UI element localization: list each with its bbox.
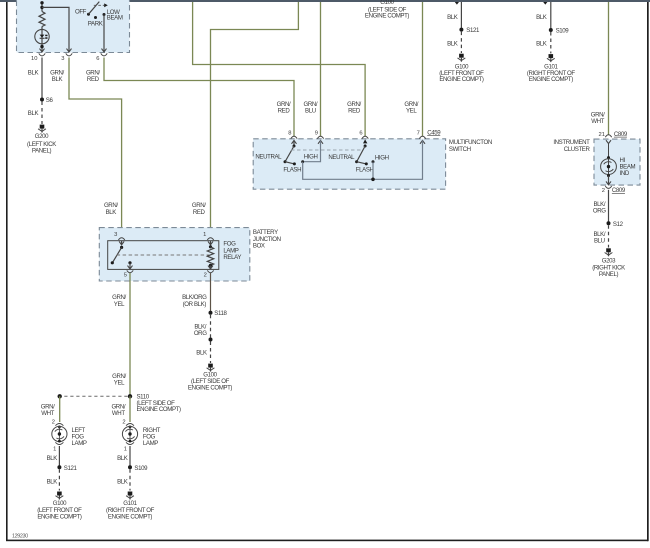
wire GRN/BLK from pin 3 to BJB pin 3: [50, 58, 121, 237]
connector pin 2 C809: [602, 181, 626, 194]
right fog lamp: [122, 420, 160, 453]
svg-text:OFF: OFF: [75, 8, 87, 15]
headlamp switch box (cut at top): [17, 0, 130, 53]
wire BLK from left fog lamp to S121: [47, 446, 60, 467]
svg-text:1: 1: [53, 446, 56, 452]
svg-text:S6: S6: [46, 97, 54, 104]
splice S109 (bottom): [128, 465, 148, 472]
svg-text:G100: G100: [380, 0, 394, 6]
svg-text:C809: C809: [614, 131, 628, 138]
svg-text:8: 8: [288, 130, 291, 136]
svg-text:PANEL): PANEL): [32, 148, 52, 155]
svg-text:3: 3: [114, 232, 117, 238]
wire: headlamp switch internal feed at x=42: [40, 1, 43, 11]
svg-text:1: 1: [203, 232, 206, 238]
svg-text:ENGINE COMPT): ENGINE COMPT): [365, 13, 410, 20]
svg-text:ENGINE COMPT): ENGINE COMPT): [137, 406, 182, 413]
relay switch: [111, 246, 123, 265]
svg-text:YEL: YEL: [114, 380, 125, 387]
svg-text:RED: RED: [348, 107, 361, 114]
splice S118: [209, 310, 228, 317]
relay actuation dashed link: [117, 254, 210, 256]
svg-text:BLK: BLK: [47, 455, 58, 462]
splice S121 (top): [459, 27, 480, 34]
svg-text:2: 2: [122, 420, 125, 426]
splice S6: [40, 97, 53, 104]
svg-text:BLU: BLU: [305, 107, 316, 114]
connector pin 21 C809: [599, 131, 628, 144]
ground G100 (left front of engine compt) top: [439, 54, 484, 83]
wire: branch from feed to pin 3: [42, 7, 69, 48]
svg-text:C809: C809: [612, 187, 626, 194]
top header bar: [0, 0, 650, 2]
svg-text:RED: RED: [193, 209, 206, 216]
connector pin 3 at battery junction box: [114, 232, 125, 245]
wire BLK/ORG from cluster pin 2 to S12: [593, 190, 609, 224]
switch mechanical link dashed: [291, 149, 361, 151]
splice (unlabeled) below S118: [209, 338, 213, 342]
svg-text:129230: 129230: [12, 534, 28, 540]
connector pin 1 at battery junction box: [203, 232, 214, 245]
svg-text:BLK: BLK: [117, 479, 128, 486]
relay coil: [207, 245, 213, 273]
svg-text:BLK: BLK: [28, 110, 39, 117]
wire BLK top right to S109: [536, 2, 551, 30]
svg-text:S109: S109: [134, 465, 148, 472]
connector pin 7 C459: [417, 129, 442, 145]
page border left: [6, 2, 8, 541]
headlamp switch contact PARK: [94, 16, 97, 19]
svg-text:GRN/: GRN/: [104, 202, 118, 209]
svg-text:G101: G101: [123, 500, 137, 507]
svg-text:BLK: BLK: [117, 455, 128, 462]
connector pin 2 at battery junction box: [204, 272, 207, 278]
wire BLK/ORG dashed below S118: [194, 315, 211, 338]
wire BLK/BLU dashed to G203: [593, 225, 608, 247]
svg-text:S121: S121: [64, 465, 78, 472]
wire GRN/RED from top to multifunction switch pin 6: [193, 2, 366, 136]
svg-text:BLK: BLK: [52, 76, 63, 83]
wire GRN/YEL from top to multifunction switch pin 7: [404, 2, 422, 136]
svg-text:BLK: BLK: [106, 209, 117, 216]
svg-text:2: 2: [204, 272, 207, 278]
ground G101 (right front of engine compt) top: [527, 54, 576, 83]
wire GRN/RED from pin 6 to multifunction switch pin 8: [86, 58, 294, 137]
illumination lamp in headlamp switch: [35, 27, 49, 49]
wire GRN/YEL from BJB pin 5 to S110: [112, 273, 130, 396]
svg-text:9: 9: [315, 130, 318, 136]
svg-text:PARK: PARK: [88, 21, 103, 28]
svg-text:BLK: BLK: [447, 41, 458, 48]
wire GRN/BLU from top to multifunction switch pin 9: [304, 2, 321, 136]
wire BLK dashed to G101 (top): [536, 32, 551, 53]
page border bottom: [6, 540, 648, 542]
svg-text:C459: C459: [427, 129, 441, 136]
ground G200: [27, 125, 56, 155]
multifunction switch 1 blade: [284, 144, 296, 163]
connector pin 9 C459: [315, 130, 324, 145]
connector pin 5 at battery junction box: [124, 272, 127, 278]
svg-text:ORG: ORG: [593, 208, 606, 215]
resistor (dimmer rheostat) in headlamp switch: [39, 12, 45, 27]
svg-text:YEL: YEL: [406, 107, 417, 114]
wire BLK dashed to G100 mid: [196, 342, 210, 364]
connector pin 6 C459: [359, 130, 368, 143]
battery junction box: [99, 228, 280, 281]
svg-text:BLK: BLK: [536, 41, 547, 48]
wire BLK dashed to G101 (bottom right): [117, 469, 130, 490]
svg-text:21: 21: [599, 132, 605, 138]
svg-text:7: 7: [417, 130, 420, 136]
svg-text:2: 2: [602, 188, 605, 194]
headlamp switch contact LOW BEAM + wire to pin 6: [103, 13, 106, 48]
svg-text:ENGINE COMPT): ENGINE COMPT): [529, 76, 574, 83]
splice S109 (top): [549, 27, 570, 34]
ground G100 (left front of engine compt) bottom: [37, 492, 82, 521]
wire BLK dashed from S6 to G200: [28, 102, 42, 125]
svg-text:S118: S118: [214, 310, 227, 317]
svg-text:2: 2: [52, 420, 55, 426]
svg-text:S12: S12: [613, 221, 624, 228]
svg-text:G200: G200: [35, 133, 49, 140]
pin 6 stub top: [543, 2, 547, 5]
svg-text:GRN/: GRN/: [192, 202, 206, 209]
connector pin 3 at headlamp switch: [61, 48, 72, 62]
svg-text:LAMP: LAMP: [72, 440, 87, 447]
svg-text:(OR BLK): (OR BLK): [183, 301, 207, 308]
svg-text:ENGINE COMPT): ENGINE COMPT): [439, 76, 484, 83]
wire BLK/ORG from BJB pin 2 to S118: [182, 273, 210, 313]
multifunction switch 2 contacts: [328, 154, 388, 174]
svg-text:RED: RED: [87, 76, 100, 83]
svg-text:BEAM: BEAM: [107, 15, 123, 22]
svg-text:ENGINE COMPT): ENGINE COMPT): [108, 514, 153, 521]
svg-text:1: 1: [124, 446, 127, 452]
svg-text:S109: S109: [556, 27, 570, 34]
pin 4 stub top: [455, 2, 459, 5]
connector pin 10 at headlamp switch: [31, 48, 45, 62]
svg-text:PANEL): PANEL): [599, 271, 619, 278]
svg-text:NEUTRAL: NEUTRAL: [255, 154, 282, 161]
ground G100 (left side of engine compt): [188, 364, 233, 392]
ground G203: [592, 248, 625, 278]
hi beam indicator lamp: [601, 143, 636, 181]
svg-text:S121: S121: [466, 27, 480, 34]
svg-text:YEL: YEL: [114, 301, 125, 308]
svg-text:BLU: BLU: [594, 238, 605, 245]
switch travel dashed arrow: [94, 3, 108, 7]
svg-text:HIGH: HIGH: [375, 154, 389, 161]
wire BLK from pin 10 to S6: [28, 58, 42, 100]
svg-text:BOX: BOX: [253, 243, 265, 250]
svg-text:ENGINE COMPT): ENGINE COMPT): [37, 514, 82, 521]
wire BLK dashed to G100 (bottom left): [47, 469, 60, 490]
instrument cluster box: [553, 139, 640, 185]
multifunction switch 2 blade: [355, 144, 367, 163]
svg-text:BLK: BLK: [447, 14, 458, 21]
svg-text:SWITCH: SWITCH: [449, 146, 471, 153]
multifunction switch 1 contacts: [255, 154, 317, 174]
headlamp switch position labels: [75, 8, 123, 27]
svg-text:WHT: WHT: [112, 410, 125, 417]
splice S110: [128, 393, 181, 413]
multifunction switch box: [253, 139, 492, 189]
wire GRN/WHT from top to instrument cluster pin 21: [591, 2, 609, 135]
svg-text:FLASH: FLASH: [356, 167, 374, 174]
relay switch output contact to pin 5: [127, 261, 133, 273]
dashed branch from S110 to left fog lamp node: [58, 394, 128, 398]
page border right: [647, 2, 649, 541]
svg-text:6: 6: [359, 130, 362, 136]
left fog lamp: [52, 420, 87, 453]
svg-text:6: 6: [96, 56, 99, 62]
svg-text:G100: G100: [53, 500, 67, 507]
wire from pin 9 to switch 1 high contact: [304, 144, 321, 161]
svg-text:IND: IND: [620, 170, 630, 177]
label G100 (LEFT SIDE OF ENGINE COMPT) top middle: [365, 0, 410, 20]
wire GRN/WHT to left fog lamp: [41, 396, 60, 422]
wire BLK top right to S121: [447, 2, 461, 30]
wire BLK dashed to G100 (top): [447, 32, 461, 53]
svg-text:BLK: BLK: [536, 14, 547, 21]
wire BLK from right fog lamp to S109: [117, 446, 130, 467]
svg-text:ORG: ORG: [194, 330, 207, 337]
svg-text:LAMP: LAMP: [143, 440, 158, 447]
svg-text:3: 3: [61, 56, 64, 62]
svg-text:BLK: BLK: [47, 479, 58, 486]
svg-text:CLUSTER: CLUSTER: [564, 146, 591, 153]
wire from switch 1 high to pin 7 bus: [303, 144, 423, 179]
svg-text:ENGINE COMPT): ENGINE COMPT): [188, 385, 233, 392]
ground G101 (right front of engine compt) bottom: [106, 492, 155, 521]
wire GRN/WHT to right fog lamp: [111, 396, 130, 422]
wire from switch 2 high to bus (junction): [371, 162, 375, 181]
connector pin 8 C459: [288, 130, 297, 146]
splice S12: [607, 221, 624, 228]
svg-text:10: 10: [31, 56, 37, 62]
svg-text:RED: RED: [278, 107, 291, 114]
svg-text:BLK: BLK: [196, 350, 207, 357]
headlamp switch contact OFF: [87, 2, 99, 16]
svg-text:WHT: WHT: [41, 410, 54, 417]
wire GRN/RED from top to battery junction box pin 1: [192, 2, 299, 237]
svg-text:WHT: WHT: [591, 118, 604, 125]
svg-text:HIGH: HIGH: [304, 154, 318, 161]
svg-text:FLASH: FLASH: [283, 167, 301, 174]
splice S121 (bottom): [57, 465, 77, 472]
svg-text:BLK: BLK: [28, 69, 39, 76]
svg-text:RELAY: RELAY: [223, 254, 241, 261]
svg-text:5: 5: [124, 272, 127, 278]
svg-text:NEUTRAL: NEUTRAL: [328, 154, 355, 161]
fog lamp relay inner box: [108, 241, 242, 270]
connector pin 6 at headlamp switch: [96, 48, 107, 62]
